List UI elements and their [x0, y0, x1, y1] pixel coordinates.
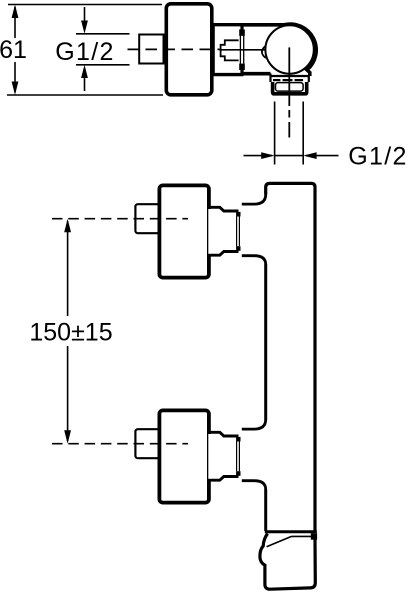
- bottom end piece outline: [260, 534, 315, 590]
- outlet nut: [273, 82, 307, 94]
- lower joint square top: [236, 437, 240, 442]
- dimension line between extension lines: [275, 155, 304, 157]
- extension line bottom of inlet (G1/2 dim): [76, 64, 130, 66]
- wall flange (side view): [166, 4, 212, 95]
- valve body bottom edge: [244, 72, 271, 76]
- valve body outline (side view): [244, 24, 317, 76]
- lower neck top curve: [242, 420, 266, 430]
- bottom piece diagonal: [267, 536, 292, 546]
- dimension line outlet G1/2 right arrow: [306, 155, 339, 157]
- upper knob edge slim cover: [208, 209, 211, 254]
- cartridge housing bottom edge: [212, 73, 244, 76]
- extension line top of inlet (G1/2 dim): [76, 33, 130, 35]
- joint square top (side view): [239, 29, 245, 35]
- bar bottom joint line: [265, 530, 317, 533]
- arrow up to inlet bottom: [84, 77, 86, 91]
- upper joint double lines: [236, 217, 238, 247]
- lower neck bottom curve: [242, 481, 266, 490]
- cartridge bracket: [221, 40, 239, 60]
- svg-text:G1/2: G1/2: [55, 38, 114, 66]
- upper neck bottom curve: [242, 256, 266, 265]
- lower escutcheon white cover: [210, 431, 239, 481]
- joint stem verticals: [240, 25, 243, 31]
- cartridge housing top edge: [212, 23, 244, 26]
- upper escutcheon white cover: [210, 206, 239, 256]
- ball left pole arc: [262, 46, 266, 58]
- lower escutcheon profile top: [211, 432, 239, 436]
- horizontal centerline dashed (side view): [128, 48, 220, 50]
- lower joint square bottom: [236, 471, 240, 476]
- ball circle: [265, 25, 313, 73]
- upper lever: [135, 204, 163, 233]
- dimension line 150±15: [67, 221, 69, 316]
- extension line top of flange (61 dim): [8, 4, 162, 6]
- extension line left of outlet: [274, 102, 276, 165]
- inlet pipe stub: [139, 35, 163, 64]
- upper centerline dashes: [52, 218, 188, 220]
- svg-text:150±15: 150±15: [29, 319, 112, 347]
- thread dashes in band: [273, 79, 303, 81]
- bar left edge bottom segment: [264, 489, 267, 531]
- extension line bottom of flange (61 dim): [7, 94, 163, 96]
- joint double lines (side view): [239, 36, 241, 64]
- vertical centerline dashes: [288, 110, 290, 118]
- dimension line outlet G1/2 left arrow: [244, 155, 273, 157]
- bottom piece corner square: [311, 533, 317, 540]
- lower escutcheon profile bottom: [211, 477, 239, 481]
- lower knob: [159, 410, 209, 502]
- svg-text:G1/2: G1/2: [348, 143, 407, 171]
- upper escutcheon profile bottom: [211, 252, 239, 256]
- lower lever: [135, 429, 163, 458]
- joint square bottom (side view): [239, 64, 245, 70]
- nut inner face: [276, 83, 304, 92]
- horizontal centerline solid (through cartridge): [220, 49, 267, 51]
- bottom piece top thin line: [292, 535, 317, 537]
- upper neck top curve: [242, 195, 266, 205]
- extension line right of outlet: [302, 102, 304, 165]
- upper joint square top: [236, 212, 240, 217]
- dimension line 61 with arrows: [14, 7, 16, 92]
- upper escutcheon profile top: [211, 207, 239, 211]
- lower knob edge slim cover: [208, 434, 211, 479]
- upper knob: [159, 185, 209, 277]
- front view: wall bar outline: [266, 183, 315, 533]
- vertical centerline (side view) solid: [288, 47, 290, 106]
- bar left edge middle segment: [264, 264, 267, 420]
- lower centerline dashes: [52, 443, 188, 445]
- housing right edge (thin): [213, 25, 215, 75]
- upper joint square bottom: [236, 246, 240, 251]
- arrow down to inlet top: [84, 7, 86, 22]
- svg-text:61: 61: [0, 36, 27, 64]
- lower joint double lines: [236, 442, 238, 472]
- outlet band: [271, 74, 309, 83]
